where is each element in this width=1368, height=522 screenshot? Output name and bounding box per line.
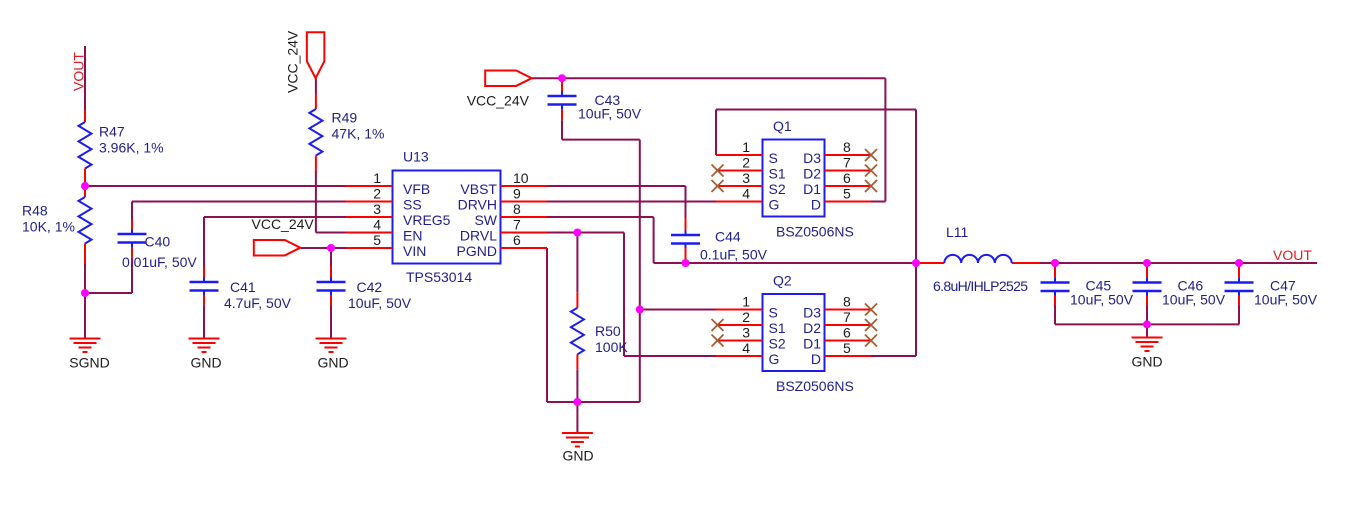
- svg-text:8: 8: [843, 139, 851, 155]
- net label VCC_24V (at C43): [467, 93, 530, 109]
- svg-text:10uF, 50V: 10uF, 50V: [578, 105, 642, 121]
- svg-text:GND: GND: [562, 448, 593, 464]
- svg-text:D: D: [811, 197, 821, 213]
- junction node output GND: [1143, 320, 1151, 328]
- svg-text:VOUT: VOUT: [1273, 247, 1312, 263]
- U13 pin 5 VIN: [346, 232, 426, 259]
- svg-text:3: 3: [742, 170, 750, 186]
- svg-text:10uF, 50V: 10uF, 50V: [1070, 292, 1134, 308]
- svg-text:DRVH: DRVH: [458, 197, 497, 213]
- svg-text:EN: EN: [403, 228, 422, 244]
- Q2 pin 3 S2: [712, 325, 786, 352]
- wire VIN junction to C42: [330, 248, 332, 267]
- junction node VOUT C47: [1235, 259, 1243, 267]
- Q1 pin 4 G: [716, 186, 779, 213]
- net label VCC_24V (left middle): [252, 216, 315, 232]
- wire SW net U13 pin 8: [547, 217, 654, 263]
- svg-text:R48: R48: [22, 203, 48, 219]
- ground GND: [562, 433, 594, 464]
- svg-text:8: 8: [843, 294, 851, 310]
- U13 pin 10 VBST: [460, 170, 547, 197]
- svg-text:4: 4: [373, 217, 381, 233]
- wire SS net C40 top to U13 pin 2: [132, 202, 346, 220]
- net label VCC_24V (top, vertical): [285, 30, 301, 93]
- wire EN net R49 bottom to U13 pin 4: [316, 171, 346, 233]
- svg-text:3.96K, 1%: 3.96K, 1%: [99, 139, 164, 155]
- svg-text:Q2: Q2: [773, 273, 792, 289]
- capacitor C42: [317, 267, 412, 312]
- svg-text:SS: SS: [403, 197, 422, 213]
- resistor R50: [571, 292, 628, 370]
- svg-text:C42: C42: [357, 279, 383, 295]
- wire VCC_24V flag to R49: [315, 78, 317, 93]
- svg-text:7: 7: [513, 217, 521, 233]
- svg-text:6: 6: [843, 325, 851, 341]
- svg-text:R47: R47: [99, 124, 125, 140]
- svg-text:6: 6: [843, 170, 851, 186]
- wire C46 bottom: [1146, 306, 1148, 324]
- transistor Q1 BSZ0506NS body: [763, 118, 854, 240]
- wire DRVL junction to R50: [576, 233, 578, 293]
- svg-text:GND: GND: [1131, 354, 1162, 370]
- junction node PGND: [573, 398, 581, 406]
- svg-text:U13: U13: [403, 149, 429, 165]
- svg-text:100K: 100K: [595, 339, 628, 355]
- svg-text:6: 6: [513, 232, 521, 248]
- wire VOUT output: [1039, 262, 1317, 264]
- svg-text:VCC_24V: VCC_24V: [285, 30, 301, 93]
- power flag VCC_24V (left middle): [254, 240, 300, 256]
- svg-text:VIN: VIN: [403, 243, 426, 259]
- wire R48 bottom to SGND: [84, 264, 86, 339]
- svg-text:7: 7: [843, 309, 851, 325]
- svg-text:3: 3: [373, 201, 381, 217]
- Q2 pin 5 D: [811, 340, 871, 367]
- wire VCC_24V horizontal bus: [531, 77, 885, 79]
- svg-text:S: S: [769, 305, 778, 321]
- net label VOUT (right): [1273, 247, 1312, 263]
- svg-text:10: 10: [513, 170, 529, 186]
- svg-text:5: 5: [843, 186, 851, 202]
- svg-text:VFB: VFB: [403, 181, 430, 197]
- wire PGND net U13 pin 6 down: [547, 248, 640, 402]
- svg-text:DRVL: DRVL: [460, 228, 497, 244]
- junction node VOUT C45: [1051, 259, 1059, 267]
- wire VIN net flag to U13 pin 5: [301, 247, 346, 249]
- junction node DRVL: [573, 229, 581, 237]
- wire C47 bottom: [1238, 306, 1240, 324]
- junction node SW at L11: [912, 259, 920, 267]
- Q1 pin 3 S2: [712, 170, 786, 197]
- Q2 pin 4 G: [716, 340, 779, 367]
- capacitor C43: [548, 78, 642, 121]
- svg-text:10K, 1%: 10K, 1%: [22, 218, 75, 234]
- svg-text:10uF, 50V: 10uF, 50V: [1162, 292, 1226, 308]
- wire C42 bottom to GND: [330, 306, 332, 339]
- U13 pin 6 PGND: [457, 232, 547, 259]
- power flag VCC_24V (top, vertical): [307, 32, 325, 78]
- resistor R47: [79, 110, 164, 188]
- svg-text:1: 1: [742, 139, 750, 155]
- U13 pin 1 VFB: [346, 170, 430, 197]
- svg-text:8: 8: [513, 201, 521, 217]
- wire VREG5 net C41 top to U13 pin 3: [204, 217, 346, 267]
- wire DRVH net U13 pin 9 to Q1 gate: [547, 201, 716, 203]
- svg-text:VCC_24V: VCC_24V: [252, 216, 315, 232]
- svg-text:Q1: Q1: [773, 118, 792, 134]
- Q2 pin 7 D2: [803, 309, 877, 336]
- U13 pin 4 EN: [346, 217, 422, 244]
- svg-text:D3: D3: [803, 305, 821, 321]
- capacitor C40: [118, 219, 198, 270]
- svg-text:C40: C40: [145, 234, 171, 250]
- svg-text:R50: R50: [595, 323, 621, 339]
- svg-text:7: 7: [843, 155, 851, 171]
- svg-text:10uF, 50V: 10uF, 50V: [1254, 292, 1318, 308]
- svg-text:VOUT: VOUT: [71, 52, 87, 91]
- Q1 pin 5 D: [811, 186, 871, 213]
- wire SW down to Q2 drain: [871, 263, 916, 356]
- svg-text:PGND: PGND: [457, 243, 497, 259]
- junction node SW at C44: [682, 259, 690, 267]
- svg-text:D: D: [811, 351, 821, 367]
- inductor L11: [916, 224, 1039, 294]
- wire SW horizontal to L11: [654, 262, 916, 264]
- svg-text:D2: D2: [803, 166, 821, 182]
- svg-text:4: 4: [742, 186, 750, 202]
- resistor R49: [309, 94, 384, 172]
- svg-text:47K, 1%: 47K, 1%: [332, 125, 385, 141]
- svg-text:S1: S1: [769, 320, 786, 336]
- Q2 pin 6 D1: [803, 325, 877, 352]
- svg-text:D2: D2: [803, 320, 821, 336]
- U13 pin 8 SW: [474, 201, 547, 228]
- Q2 pin 8 D3: [803, 294, 877, 321]
- svg-text:D3: D3: [803, 150, 821, 166]
- svg-text:BSZ0506NS: BSZ0506NS: [776, 378, 854, 394]
- junction node VIN: [327, 244, 335, 252]
- wire PGND to Q2 source: [640, 309, 716, 311]
- Q2 pin 1 S: [716, 294, 778, 321]
- svg-text:S2: S2: [769, 336, 786, 352]
- junction node VOUT C46: [1143, 259, 1151, 267]
- svg-text:S2: S2: [769, 181, 786, 197]
- ground GND: [189, 339, 222, 371]
- svg-text:C44: C44: [715, 229, 741, 245]
- ground GND: [316, 339, 349, 371]
- svg-text:SGND: SGND: [69, 355, 109, 371]
- svg-text:R49: R49: [332, 110, 358, 126]
- U13 pin 9 DRVH: [458, 186, 547, 213]
- capacitor C45: [1041, 263, 1134, 308]
- wire SW up to Q1 source: [716, 110, 916, 264]
- svg-text:GND: GND: [317, 355, 348, 371]
- wire C45 bottom: [1054, 306, 1056, 324]
- Q2 pin 2 S1: [712, 309, 786, 336]
- svg-text:3: 3: [742, 325, 750, 341]
- wire output cap ground bus: [1055, 324, 1239, 337]
- junction node PGND at Q2: [636, 306, 644, 314]
- wire R50 bottom to GND: [576, 370, 578, 433]
- net label VOUT (top left, vertical): [71, 52, 87, 91]
- svg-text:VREG5: VREG5: [403, 212, 451, 228]
- resistor R48: [22, 186, 92, 264]
- svg-text:D1: D1: [803, 181, 821, 197]
- wire PGND riser to C43: [562, 120, 640, 402]
- svg-text:TPS53014: TPS53014: [406, 269, 472, 285]
- svg-text:4.7uF, 50V: 4.7uF, 50V: [224, 295, 292, 311]
- ground SGND: [69, 339, 109, 371]
- svg-text:L11: L11: [946, 224, 969, 240]
- svg-text:4: 4: [742, 340, 750, 356]
- Q1 pin 2 S1: [712, 155, 786, 182]
- wire C41 bottom to GND: [203, 306, 205, 339]
- Q1 pin 8 D3: [803, 139, 877, 166]
- svg-text:S: S: [769, 150, 778, 166]
- svg-text:S1: S1: [769, 166, 786, 182]
- capacitor C46: [1133, 263, 1226, 308]
- svg-text:5: 5: [373, 232, 381, 248]
- svg-text:2: 2: [373, 186, 381, 202]
- svg-text:0.1uF, 50V: 0.1uF, 50V: [700, 247, 768, 263]
- svg-text:2: 2: [742, 155, 750, 171]
- svg-text:SW: SW: [474, 212, 497, 228]
- Q1 pin 1 S: [716, 139, 778, 166]
- power flag VCC_24V (at C43): [485, 70, 532, 86]
- svg-text:G: G: [769, 197, 780, 213]
- junction node SGND: [81, 289, 89, 297]
- svg-text:5: 5: [843, 340, 851, 356]
- svg-text:G: G: [769, 351, 780, 367]
- svg-text:VCC_24V: VCC_24V: [467, 93, 530, 109]
- U13 pin 2 SS: [346, 186, 422, 213]
- svg-text:10uF, 50V: 10uF, 50V: [348, 295, 412, 311]
- svg-text:0.01uF, 50V: 0.01uF, 50V: [122, 254, 197, 270]
- capacitor C47: [1225, 263, 1318, 308]
- op-amp U13 TPS53014 body: [393, 149, 501, 286]
- wire VCC_24V down to Q1 drain: [871, 78, 886, 201]
- junction node VFB: [81, 182, 89, 190]
- capacitor C44: [671, 218, 768, 264]
- Q1 pin 7 D2: [803, 155, 877, 182]
- svg-text:GND: GND: [190, 355, 221, 371]
- svg-text:D1: D1: [803, 336, 821, 352]
- junction node VCC at C43: [558, 74, 566, 82]
- wire DRVL net U13 pin 7 to Q2 gate: [547, 233, 716, 357]
- U13 pin 7 DRVL: [460, 217, 547, 244]
- ground GND: [1131, 338, 1162, 370]
- svg-text:BSZ0506NS: BSZ0506NS: [776, 224, 854, 240]
- wire VBST net U13 pin 10 to C44: [547, 186, 686, 218]
- transistor Q2 BSZ0506NS body: [763, 273, 854, 395]
- wire VFB net R47/R48 junction to U13 pin 1: [85, 185, 346, 187]
- Q1 pin 6 D1: [803, 170, 877, 197]
- svg-text:VBST: VBST: [460, 181, 497, 197]
- capacitor C41: [190, 267, 292, 312]
- svg-text:1: 1: [742, 294, 750, 310]
- svg-text:2: 2: [742, 309, 750, 325]
- svg-text:1: 1: [373, 170, 381, 186]
- wire VOUT vertical to R47: [84, 46, 86, 110]
- svg-text:C41: C41: [230, 279, 256, 295]
- svg-text:6.8uH/IHLP2525: 6.8uH/IHLP2525: [933, 278, 1028, 294]
- U13 pin 3 VREG5: [346, 201, 451, 228]
- wire SGND to C40 bottom: [85, 258, 132, 293]
- svg-text:9: 9: [513, 186, 521, 202]
